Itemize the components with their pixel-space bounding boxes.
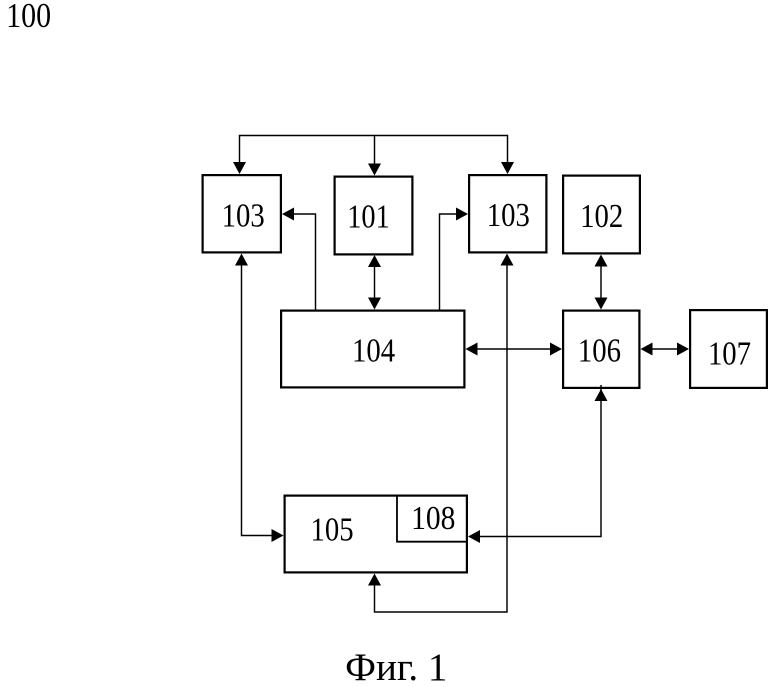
svg-text:103: 103 <box>487 197 530 234</box>
svg-text:107: 107 <box>708 336 751 373</box>
svg-text:104: 104 <box>352 332 395 369</box>
svg-text:100: 100 <box>6 0 51 35</box>
svg-text:108: 108 <box>411 500 455 537</box>
svg-text:Фиг. 1: Фиг. 1 <box>345 646 447 687</box>
svg-text:105: 105 <box>311 511 354 548</box>
svg-text:102: 102 <box>580 198 623 235</box>
svg-text:103: 103 <box>222 197 265 234</box>
svg-text:101: 101 <box>347 199 390 236</box>
svg-text:106: 106 <box>578 333 621 370</box>
